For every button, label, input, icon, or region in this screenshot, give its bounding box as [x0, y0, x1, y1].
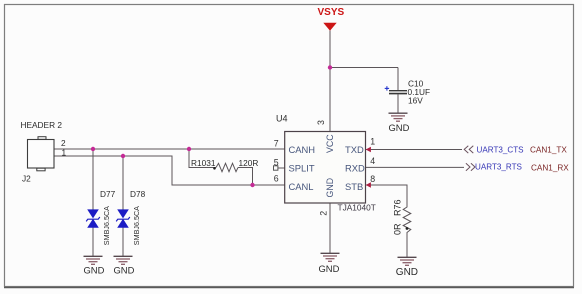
svg-text:4: 4 [370, 156, 375, 166]
svg-text:SMBJ6.5CA: SMBJ6.5CA [102, 206, 111, 245]
svg-text:16V: 16V [408, 95, 423, 105]
svg-text:GND: GND [319, 263, 340, 274]
svg-text:2: 2 [318, 211, 328, 216]
svg-text:VSYS: VSYS [318, 7, 345, 18]
svg-text:GND: GND [325, 178, 335, 198]
svg-text:RXD: RXD [345, 163, 365, 174]
svg-text:TXD: TXD [345, 144, 364, 155]
svg-text:UART3_RTS: UART3_RTS [475, 163, 523, 172]
svg-text:GND: GND [396, 267, 418, 278]
svg-text:8: 8 [370, 174, 375, 184]
svg-text:3: 3 [316, 120, 326, 125]
svg-text:STB: STB [345, 181, 363, 192]
svg-text:UART3_CTS: UART3_CTS [477, 145, 525, 154]
svg-text:U4: U4 [276, 113, 288, 123]
svg-text:7: 7 [274, 138, 279, 148]
svg-text:5: 5 [274, 157, 279, 167]
svg-text:VCC: VCC [325, 134, 335, 153]
svg-text:SPLIT: SPLIT [289, 163, 315, 174]
svg-text:1: 1 [370, 137, 375, 147]
svg-text:120R: 120R [239, 158, 259, 168]
svg-text:GND: GND [84, 265, 105, 276]
svg-text:CAN1_TX: CAN1_TX [530, 145, 567, 154]
svg-text:D77: D77 [100, 189, 116, 199]
svg-text:GND: GND [114, 265, 135, 276]
svg-text:SMBJ6.5CA: SMBJ6.5CA [132, 206, 141, 245]
svg-text:GND: GND [389, 122, 410, 133]
svg-text:HEADER 2: HEADER 2 [21, 120, 63, 130]
svg-text:0R: 0R [393, 223, 403, 235]
svg-text:CANL: CANL [289, 181, 314, 192]
svg-text:6: 6 [274, 174, 279, 184]
svg-text:D78: D78 [130, 189, 146, 199]
svg-text:R76: R76 [393, 199, 403, 216]
svg-text:J2: J2 [22, 174, 31, 184]
svg-text:1: 1 [62, 148, 67, 158]
svg-text:TJA1040T: TJA1040T [338, 203, 376, 213]
svg-text:R1031: R1031 [191, 158, 216, 168]
svg-text:CANH: CANH [289, 144, 316, 155]
svg-text:CAN1_RX: CAN1_RX [531, 164, 569, 173]
